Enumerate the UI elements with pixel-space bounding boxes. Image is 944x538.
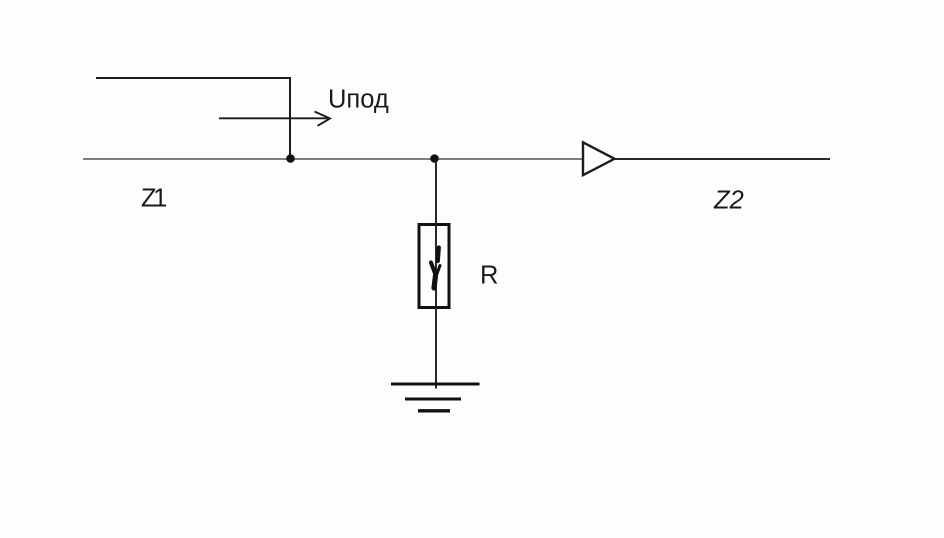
- node junction dot at tap: [286, 154, 295, 163]
- buffer amplifier triangle: [583, 142, 615, 175]
- arrow for Uпод (direction arrow): [219, 112, 330, 126]
- wire main line left (gray) Z1 side: [83, 158, 584, 160]
- wire vertical branch through resistor to ground: [435, 159, 437, 389]
- wire vertical drop from stub to main line: [289, 77, 291, 159]
- svg-text:R: R: [480, 262, 498, 290]
- svg-text:Z1: Z1: [141, 185, 166, 213]
- ground bar 3: [418, 409, 450, 412]
- arrow mark inside resistor: [431, 248, 440, 289]
- node junction dot at resistor branch: [430, 154, 439, 163]
- svg-text:Uпод: Uпод: [328, 86, 389, 114]
- ground bar 2: [405, 398, 461, 401]
- svg-text:Z2: Z2: [713, 187, 744, 215]
- ground bar 1: [391, 383, 480, 386]
- wire top horizontal stub: [96, 77, 291, 79]
- resistor R body: [419, 225, 449, 308]
- wire main line right (dark) Z2 side: [613, 158, 830, 160]
